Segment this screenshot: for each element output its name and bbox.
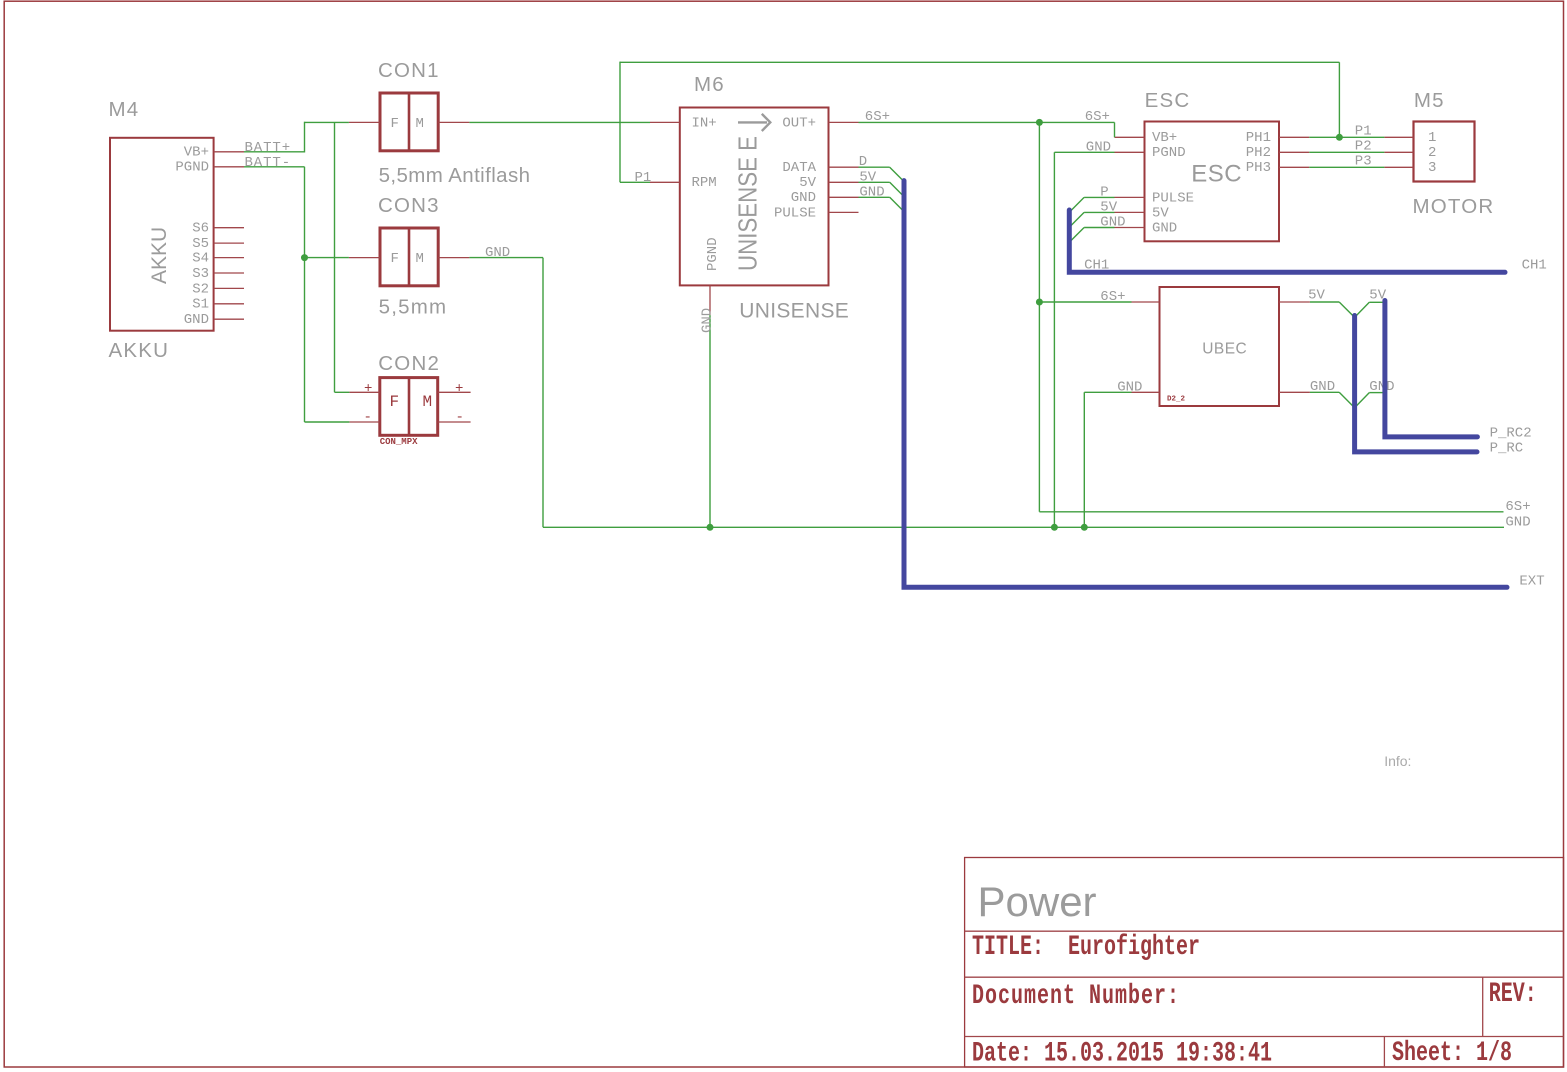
svg-text:S6: S6 — [192, 221, 209, 237]
svg-text:REV:: REV: — [1489, 979, 1537, 1010]
svg-text:5V: 5V — [1100, 199, 1117, 215]
svg-text:Document Number:: Document Number: — [972, 981, 1180, 1012]
svg-text:M: M — [423, 393, 433, 411]
svg-text:Sheet: 1/8: Sheet: 1/8 — [1392, 1038, 1512, 1069]
svg-text:6S+: 6S+ — [865, 109, 890, 125]
svg-text:MOTOR: MOTOR — [1413, 195, 1495, 218]
svg-text:P_RC2: P_RC2 — [1490, 426, 1532, 442]
svg-text:P3: P3 — [1355, 154, 1372, 170]
svg-text:AKKU: AKKU — [148, 227, 171, 284]
svg-text:S4: S4 — [192, 251, 209, 267]
svg-text:PH2: PH2 — [1246, 145, 1271, 161]
svg-text:PGND: PGND — [705, 237, 721, 271]
svg-text:IN+: IN+ — [692, 115, 717, 131]
svg-text:P1: P1 — [1355, 124, 1372, 140]
svg-text:RPM: RPM — [692, 175, 717, 191]
svg-text:5V: 5V — [1152, 205, 1169, 221]
svg-text:CON3: CON3 — [378, 194, 440, 217]
svg-text:AKKU: AKKU — [109, 339, 170, 362]
svg-text:M5: M5 — [1414, 89, 1445, 112]
svg-text:CON2: CON2 — [378, 352, 440, 375]
svg-text:CON1: CON1 — [378, 59, 440, 82]
svg-text:CON_MPX: CON_MPX — [380, 437, 418, 447]
svg-text:GND: GND — [1152, 220, 1177, 236]
svg-text:Power: Power — [978, 878, 1097, 925]
svg-text:PULSE: PULSE — [774, 205, 816, 221]
svg-text:-: - — [456, 410, 464, 426]
svg-text:6S+: 6S+ — [1085, 109, 1110, 125]
svg-text:PGND: PGND — [1152, 145, 1186, 161]
svg-text:VB+: VB+ — [184, 145, 209, 161]
svg-text:CH1: CH1 — [1084, 258, 1109, 274]
svg-text:Date: 15.03.2015 19:38:41: Date: 15.03.2015 19:38:41 — [972, 1039, 1272, 1070]
svg-text:2: 2 — [1428, 145, 1436, 161]
svg-text:3: 3 — [1428, 160, 1436, 176]
svg-text:5,5mm: 5,5mm — [379, 296, 448, 319]
svg-text:GND: GND — [1100, 215, 1125, 231]
svg-text:GND: GND — [184, 312, 209, 328]
svg-text:1: 1 — [1428, 130, 1436, 146]
svg-text:5V: 5V — [859, 169, 876, 185]
svg-text:UNISENSE E: UNISENSE E — [733, 136, 763, 271]
svg-text:Info:: Info: — [1384, 753, 1411, 769]
svg-text:+: + — [455, 381, 463, 397]
svg-text:DATA: DATA — [782, 160, 816, 176]
svg-text:TITLE: Eurofighter: TITLE: Eurofighter — [972, 932, 1200, 963]
svg-text:5,5mm Antiflash: 5,5mm Antiflash — [379, 164, 531, 187]
svg-text:CH1: CH1 — [1522, 258, 1547, 274]
svg-text:F: F — [391, 251, 399, 267]
svg-text:6S+: 6S+ — [1100, 289, 1125, 305]
svg-text:5V: 5V — [1308, 288, 1325, 304]
svg-text:P2: P2 — [1355, 139, 1372, 155]
svg-text:D: D — [859, 154, 867, 170]
svg-text:VB+: VB+ — [1152, 130, 1177, 146]
svg-text:GND: GND — [859, 184, 884, 200]
svg-text:S1: S1 — [192, 297, 209, 313]
svg-text:ESC: ESC — [1191, 161, 1242, 188]
svg-text:UBEC: UBEC — [1202, 341, 1247, 358]
svg-text:EXT: EXT — [1519, 574, 1544, 590]
svg-text:F: F — [391, 116, 399, 132]
svg-text:S3: S3 — [192, 266, 209, 282]
svg-text:5V: 5V — [799, 175, 816, 191]
svg-text:GND: GND — [791, 190, 816, 206]
svg-text:PULSE: PULSE — [1152, 190, 1194, 206]
svg-text:F: F — [390, 393, 400, 411]
svg-text:-: - — [364, 410, 372, 426]
svg-text:M6: M6 — [694, 73, 725, 96]
svg-text:M4: M4 — [109, 98, 140, 121]
svg-text:PH1: PH1 — [1246, 130, 1271, 146]
svg-text:+: + — [364, 381, 372, 397]
svg-text:GND: GND — [1310, 379, 1335, 395]
svg-text:GND: GND — [1086, 139, 1111, 155]
svg-text:P1: P1 — [635, 170, 652, 186]
svg-text:S2: S2 — [192, 281, 209, 297]
svg-text:GND: GND — [1505, 514, 1530, 530]
svg-text:M: M — [416, 251, 424, 267]
svg-text:P_RC: P_RC — [1490, 441, 1524, 457]
svg-text:GND: GND — [700, 308, 716, 333]
svg-text:M: M — [416, 116, 424, 132]
svg-text:GND: GND — [485, 245, 510, 261]
svg-text:P: P — [1100, 184, 1108, 200]
svg-text:BATT+: BATT+ — [245, 140, 292, 156]
svg-text:PH3: PH3 — [1246, 160, 1271, 176]
svg-text:6S+: 6S+ — [1505, 499, 1530, 515]
svg-text:BATT-: BATT- — [245, 155, 292, 171]
svg-text:ESC: ESC — [1145, 89, 1191, 112]
svg-text:D2_2: D2_2 — [1167, 396, 1186, 404]
svg-text:PGND: PGND — [175, 160, 209, 176]
svg-text:OUT+: OUT+ — [782, 115, 816, 131]
svg-text:UNISENSE: UNISENSE — [739, 300, 849, 323]
svg-text:GND: GND — [1369, 379, 1394, 395]
svg-text:GND: GND — [1117, 379, 1142, 395]
